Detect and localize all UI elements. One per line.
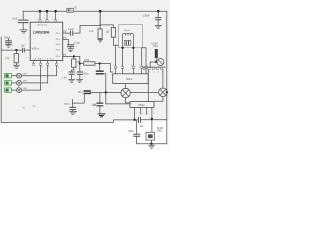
box U4 bottom pins (135, 107, 152, 119)
wire button row 3 (22, 65, 41, 90)
svg-text:6: 6 (147, 113, 148, 115)
capacitor C9 (99, 92, 101, 103)
capacitor C1 plates (19, 20, 29, 23)
wire VDD input (1, 49, 22, 51)
ground under C2 (6, 44, 12, 47)
resistor R4 body (84, 91, 90, 93)
wire resonator right drop (132, 48, 134, 66)
diode D1 body (67, 8, 73, 12)
svg-text:2.2uF: 2.2uF (68, 29, 74, 31)
wire crystal rail (137, 143, 167, 145)
push button SW1 (5, 73, 22, 78)
svg-text:LM02306: LM02306 (33, 29, 50, 34)
ground under C7 (77, 79, 83, 82)
svg-text:4.7uF: 4.7uF (74, 43, 80, 45)
resistor R1 body (14, 54, 19, 63)
svg-text:4: 4 (131, 65, 132, 67)
lamp LP1 (121, 88, 130, 97)
wire lamp LP2 bottom (154, 97, 163, 102)
svg-text:Ohm: Ohm (153, 46, 158, 48)
capacitor C6 (69, 72, 74, 74)
svg-text:100k: 100k (84, 60, 90, 62)
capacitor C2 100nF (8, 39, 10, 41)
crystal X1 load cap C13 (136, 120, 138, 134)
ground under C6 (69, 79, 75, 82)
svg-text:100nF: 100nF (143, 15, 150, 17)
resistor R7 dark bar (155, 49, 158, 58)
capacitor C5 (68, 45, 74, 47)
IC U1 bottom pins (34, 61, 57, 64)
capacitor C7 (77, 72, 82, 74)
buzzer LS1 wire (150, 61, 157, 63)
svg-text:2: 2 (153, 71, 154, 73)
svg-text:9: 9 (35, 67, 36, 69)
ground under C9 (98, 114, 105, 117)
svg-text:7: 7 (153, 113, 154, 115)
svg-text:7: 7 (49, 67, 50, 69)
svg-text:1: 1 (37, 18, 38, 20)
wire left border bus (0, 37, 2, 121)
resistor R2 lead (73, 56, 75, 59)
capacitor C12 series (139, 118, 141, 123)
wire bottom right rail (141, 119, 167, 121)
push button SW2 (5, 80, 22, 85)
svg-text:5: 5 (142, 113, 143, 115)
sheet background (0, 0, 170, 123)
capacitor C10 (70, 107, 76, 109)
wire C8 to node (103, 74, 130, 104)
svg-text:3: 3 (52, 18, 53, 20)
ground under C11 (155, 25, 161, 28)
wire lamp LP2 top (162, 70, 164, 88)
wire pin drop A (115, 45, 117, 66)
ground crystal (149, 145, 155, 148)
svg-text:MHz: MHz (158, 131, 164, 133)
svg-text:4: 4 (136, 113, 137, 115)
resistor R2 body 10k (72, 59, 76, 67)
wire to resistor R3 (80, 63, 84, 65)
wire resonator net (113, 44, 118, 46)
svg-text:8: 8 (42, 67, 43, 69)
wire button row 1 (22, 65, 57, 75)
svg-text:100n: 100n (83, 73, 89, 75)
svg-text:6: 6 (58, 67, 59, 69)
svg-text:1.5d: 1.5d (62, 77, 67, 79)
wire button row 2 (22, 65, 48, 83)
wire lamp LP1 top (125, 83, 127, 88)
svg-text:5: 5 (139, 65, 140, 67)
wire resonator left drop (122, 48, 124, 66)
IC U1 right pin 3 (63, 55, 80, 57)
connector J2 row (143, 66, 166, 68)
svg-text:30pF: 30pF (128, 131, 134, 133)
lamp LP2 (159, 88, 168, 97)
ground under R1 (14, 65, 20, 68)
svg-text:100nF: 100nF (4, 38, 11, 40)
module M1 boundary (119, 25, 143, 48)
svg-text:1uF: 1uF (93, 105, 98, 107)
capacitor C4 series (71, 31, 73, 35)
svg-text:M0L1: M0L1 (126, 78, 133, 81)
svg-text:10uF: 10uF (12, 19, 18, 21)
svg-text:4: 4 (162, 71, 163, 73)
wire mid horizontal (100, 25, 113, 28)
svg-text:SD Vin Clk: SD Vin Clk (37, 25, 48, 27)
svg-text:16.0M: 16.0M (157, 128, 163, 130)
IC U1 top pins (40, 11, 56, 19)
push button SW3 (5, 88, 22, 93)
svg-text:HF b: HF b (65, 104, 71, 106)
resonator X2 base box (124, 40, 131, 45)
wire pin1 to rail junction (74, 11, 101, 33)
wire lamp LP1 bottom (126, 98, 130, 103)
buzzer LS1 circle (157, 59, 164, 66)
box U4 body (130, 102, 154, 108)
svg-text:Smart: Smart (124, 29, 130, 32)
resistor R6 body 11k (111, 27, 115, 37)
svg-text:VDD In: VDD In (32, 49, 40, 51)
resistor R5 body (98, 29, 102, 39)
ground under C10 (70, 111, 77, 114)
resistor R3 body 100k (84, 62, 95, 65)
wire lamp LP1 to LP2 (130, 92, 158, 94)
svg-text:7pF: 7pF (140, 126, 145, 128)
crystal X1 lead top (151, 119, 153, 133)
wire J2 drops (147, 70, 149, 102)
svg-text:3: 3 (157, 71, 158, 73)
wire right bus (166, 11, 168, 144)
wire rail drop (99, 11, 101, 25)
crystal X1 lead bottom (151, 140, 153, 144)
wire bottom rail (1, 120, 138, 123)
IC U1 right pin 1 (63, 32, 70, 34)
svg-text:M0L2: M0L2 (139, 104, 146, 107)
pin numbers (35, 18, 162, 115)
capacitor C11 100nF (157, 11, 159, 17)
svg-text:4: 4 (66, 30, 67, 32)
svg-text:HF b: HF b (78, 92, 84, 94)
capacitor C8 dark (99, 64, 101, 72)
IC U1 bottom pin boxes (33, 63, 58, 65)
resonator X2 legs (123, 36, 134, 48)
IC U1 right pin 2 (63, 39, 69, 44)
wire R3 to box U3 (95, 64, 113, 73)
wire lamp row (90, 91, 121, 93)
svg-text:2: 2 (44, 18, 45, 20)
wire top rail (23, 10, 167, 12)
IC U1 body (30, 22, 63, 60)
crystal X1 body (146, 132, 155, 140)
svg-text:5: 5 (66, 36, 67, 38)
resistor R5 left 1k lead (99, 25, 101, 29)
IC U1 top pin boxes (39, 20, 57, 22)
wire lamp LP2 right (166, 91, 168, 93)
svg-text:1uF: 1uF (21, 46, 26, 48)
svg-text:LB RBa Cb Out: LB RBa Cb Out (33, 58, 54, 61)
ground under C5 (68, 49, 74, 52)
capacitor C1 lead (22, 11, 24, 20)
capacitor C3 series 1uF (23, 48, 25, 52)
resistor R1 lead (15, 50, 17, 54)
svg-text:2: 2 (113, 65, 114, 67)
svg-text:1: 1 (149, 71, 150, 73)
wire pin drop B (142, 48, 146, 66)
wire HF node (71, 99, 73, 107)
wire pin3 down (79, 56, 81, 71)
ground under C1 (20, 30, 27, 33)
resonator X2 coil (123, 33, 134, 35)
ground under R5 (98, 40, 103, 43)
svg-text:6: 6 (147, 65, 148, 67)
box U3 pin stubs (116, 69, 146, 74)
box U3 body (113, 74, 149, 84)
svg-text:3: 3 (121, 65, 122, 67)
box U3 pin boxes (115, 66, 148, 68)
